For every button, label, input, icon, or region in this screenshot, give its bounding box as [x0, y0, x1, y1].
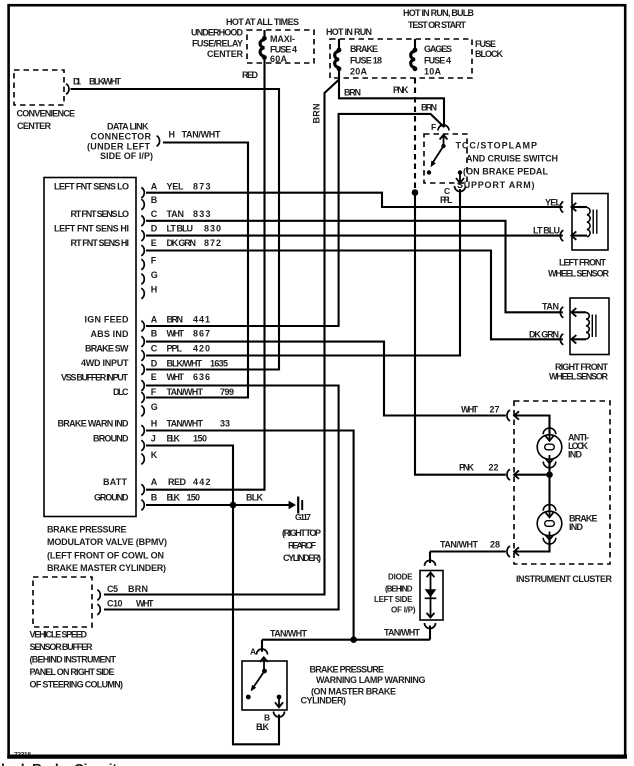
svg-text:(BEHIND INSTRUMENT: (BEHIND INSTRUMENT [30, 655, 117, 665]
svg-text:F: F [151, 387, 157, 397]
svg-text:A: A [250, 647, 256, 657]
svg-text:WARNING LAMP WARNING: WARNING LAMP WARNING [316, 675, 426, 685]
svg-text:FUSE 18: FUSE 18 [350, 56, 382, 66]
svg-text:LEFT FNT SENS LO: LEFT FNT SENS LO [54, 182, 129, 192]
svg-text:K: K [151, 450, 158, 460]
svg-text:UNDERHOOD: UNDERHOOD [191, 28, 244, 38]
svg-text:TAN/WHT: TAN/WHT [167, 387, 204, 397]
svg-text:C: C [151, 344, 158, 354]
svg-text:C5: C5 [107, 584, 118, 594]
svg-text:VSS BUFFER INPUT: VSS BUFFER INPUT [61, 373, 129, 383]
svg-text:BRAKE SW: BRAKE SW [85, 344, 129, 354]
svg-text:BLK: BLK [256, 722, 270, 732]
svg-text:TAN: TAN [167, 209, 185, 219]
svg-text:BLK: BLK [167, 434, 181, 444]
svg-text:BRAKE PRESSURE: BRAKE PRESSURE [310, 665, 385, 675]
svg-text:LT BLU: LT BLU [533, 226, 560, 236]
svg-text:(UNDER LEFT: (UNDER LEFT [87, 142, 151, 152]
svg-text:CYLINDER): CYLINDER) [283, 553, 321, 563]
svg-text:G: G [151, 402, 158, 412]
svg-text:BRN: BRN [421, 103, 437, 113]
svg-text:(LEFT FRONT OF COWL ON: (LEFT FRONT OF COWL ON [47, 551, 164, 561]
svg-text:20A: 20A [350, 67, 368, 77]
svg-text:A: A [151, 477, 158, 487]
svg-text:872: 872 [204, 238, 221, 248]
svg-text:LEFT SIDE: LEFT SIDE [374, 595, 413, 604]
svg-text:H: H [151, 419, 158, 429]
svg-text:F: F [151, 256, 157, 266]
svg-text:(ON BRAKE PEDAL: (ON BRAKE PEDAL [463, 167, 549, 177]
svg-text:G117: G117 [295, 512, 311, 522]
svg-text:G: G [151, 270, 158, 280]
svg-text:B: B [151, 492, 158, 502]
svg-text:MODULATOR VALVE (BPMV): MODULATOR VALVE (BPMV) [47, 537, 167, 547]
svg-text:MAXI-: MAXI- [270, 34, 295, 44]
svg-text:WHT: WHT [167, 372, 185, 382]
svg-text:1635: 1635 [210, 359, 228, 369]
svg-text:33: 33 [220, 419, 230, 429]
svg-text:YEL: YEL [167, 182, 185, 192]
svg-text:420: 420 [193, 344, 210, 354]
svg-text:IND: IND [569, 522, 584, 532]
svg-text:LT BLU: LT BLU [167, 224, 194, 234]
svg-text:27: 27 [490, 405, 500, 415]
svg-text:TAN/WHT: TAN/WHT [440, 540, 479, 550]
svg-text:OF STEERING COLUMN): OF STEERING COLUMN) [30, 680, 124, 690]
svg-text:PANEL ON RIGHT SIDE: PANEL ON RIGHT SIDE [30, 667, 115, 677]
svg-text:WHEEL SENSOR: WHEEL SENSOR [549, 372, 609, 382]
svg-text:LEFT FRONT: LEFT FRONT [559, 258, 607, 268]
svg-text:A: A [151, 315, 158, 325]
svg-text:FUSE: FUSE [475, 39, 496, 49]
svg-text:E: E [151, 238, 157, 248]
svg-text:WHT: WHT [167, 329, 185, 339]
svg-text:C10: C10 [107, 599, 123, 609]
svg-text:B: B [151, 195, 158, 205]
svg-text:833: 833 [193, 209, 211, 219]
svg-text:TAN/WHT: TAN/WHT [167, 419, 204, 429]
svg-text:CENTER: CENTER [207, 49, 244, 59]
svg-text:SUPPORT ARM): SUPPORT ARM) [457, 180, 535, 190]
svg-text:BRN: BRN [344, 88, 361, 98]
svg-text:D: D [151, 224, 158, 234]
svg-text:D: D [151, 359, 158, 369]
svg-text:F: F [431, 122, 436, 132]
svg-text:PPL: PPL [167, 344, 183, 354]
svg-text:D1: D1 [73, 77, 81, 87]
svg-text:BRAKE PRESSURE: BRAKE PRESSURE [47, 525, 127, 535]
svg-text:HOT AT ALL TIMES: HOT AT ALL TIMES [226, 17, 299, 27]
svg-text:150: 150 [187, 493, 201, 503]
svg-text:DK GRN: DK GRN [167, 238, 197, 248]
svg-text:B: B [151, 329, 158, 339]
svg-text:RT FNT SENS LO: RT FNT SENS LO [71, 209, 130, 219]
svg-text:A: A [151, 182, 158, 192]
svg-text:BRAKE: BRAKE [350, 44, 378, 54]
svg-text:INSTRUMENT CLUSTER: INSTRUMENT CLUSTER [516, 574, 613, 584]
svg-text:TAN/WHT: TAN/WHT [270, 629, 308, 639]
svg-text:830: 830 [204, 224, 221, 234]
svg-text:ABS IND: ABS IND [91, 329, 130, 339]
svg-text:GAGES: GAGES [424, 44, 452, 54]
svg-text:FUSE/RELAY: FUSE/RELAY [192, 39, 243, 49]
svg-text:VEHICLE SPEED: VEHICLE SPEED [30, 630, 88, 640]
svg-text:22: 22 [489, 463, 499, 473]
svg-text:BATT: BATT [103, 477, 128, 487]
svg-text:BRN: BRN [128, 584, 148, 594]
svg-text:RIGHT FRONT: RIGHT FRONT [555, 362, 609, 372]
svg-text:LEFT FNT SENS HI: LEFT FNT SENS HI [54, 224, 129, 234]
svg-text:TAN: TAN [542, 302, 559, 312]
svg-text:IND: IND [568, 450, 583, 460]
svg-text:441: 441 [193, 315, 210, 325]
svg-text:YEL: YEL [545, 198, 562, 208]
svg-text:442: 442 [193, 477, 211, 487]
svg-text:FUSE 4: FUSE 4 [424, 56, 451, 66]
svg-text:B: B [264, 713, 270, 723]
svg-text:DATA LINK: DATA LINK [107, 122, 149, 132]
svg-text:TAN/WHT: TAN/WHT [182, 130, 222, 140]
svg-text:SENSOR BUFFER: SENSOR BUFFER [30, 642, 94, 652]
svg-text:WHEEL SENSOR: WHEEL SENSOR [548, 269, 610, 279]
svg-text:150: 150 [193, 434, 207, 444]
svg-text:CONNECTOR: CONNECTOR [91, 132, 152, 142]
svg-text:DIODE: DIODE [388, 573, 413, 582]
svg-text:TEST OR START: TEST OR START [408, 20, 467, 30]
svg-text:OF I/P): OF I/P) [391, 606, 416, 615]
svg-text:BROUND: BROUND [93, 434, 129, 444]
svg-text:PNK: PNK [459, 463, 475, 473]
svg-text:28: 28 [490, 540, 500, 550]
svg-text:H: H [151, 285, 158, 295]
svg-text:GROUND: GROUND [94, 493, 129, 503]
svg-text:H: H [169, 130, 176, 140]
svg-text:873: 873 [193, 182, 211, 192]
svg-text:RED: RED [168, 477, 187, 487]
svg-text:BLK/WHT: BLK/WHT [89, 77, 122, 87]
svg-text:RT FNT SENS HI: RT FNT SENS HI [71, 238, 130, 248]
svg-text:DK GRN: DK GRN [529, 330, 559, 340]
svg-text:BRN: BRN [167, 315, 184, 325]
svg-text:IGN FEED: IGN FEED [85, 315, 130, 325]
svg-text:PNK: PNK [393, 85, 409, 95]
svg-text:BLOCK: BLOCK [475, 49, 504, 59]
svg-text:799: 799 [220, 387, 234, 397]
svg-text:CYLINDER): CYLINDER) [301, 696, 347, 706]
svg-text:PPL: PPL [440, 195, 453, 205]
svg-text:TAN/WHT: TAN/WHT [384, 628, 421, 638]
svg-text:WHT: WHT [461, 405, 479, 415]
svg-text:(BEHIND: (BEHIND [385, 585, 413, 594]
svg-text:BRAKE WARN IND: BRAKE WARN IND [58, 419, 130, 429]
svg-text:BRN: BRN [312, 104, 322, 124]
svg-text:E: E [151, 372, 157, 382]
svg-text:DLC: DLC [113, 387, 129, 397]
svg-text:J: J [151, 434, 156, 444]
svg-text:C: C [151, 209, 158, 219]
svg-text:AND CRUISE SWITCH: AND CRUISE SWITCH [466, 154, 558, 164]
svg-text:60A: 60A [270, 54, 288, 64]
svg-text:BLK: BLK [167, 493, 181, 503]
svg-text:10A: 10A [424, 67, 442, 77]
svg-text:CENTER: CENTER [17, 121, 52, 131]
svg-text:BLK/WHT: BLK/WHT [167, 359, 203, 369]
svg-text:HOT IN RUN: HOT IN RUN [326, 27, 372, 37]
svg-text:636: 636 [193, 372, 210, 382]
svg-text:WHT: WHT [136, 599, 154, 609]
svg-text:4WD INPUT: 4WD INPUT [81, 358, 129, 368]
svg-text:(RIGHT TOP: (RIGHT TOP [282, 528, 321, 538]
svg-text:REAR OF: REAR OF [288, 541, 317, 551]
svg-text:RED: RED [242, 70, 259, 80]
svg-text:lock Brake Circuit: lock Brake Circuit [1, 761, 117, 766]
svg-text:BRAKE MASTER CYLINDER): BRAKE MASTER CYLINDER) [47, 563, 166, 573]
svg-text:TCC/STOPLAMP: TCC/STOPLAMP [456, 141, 538, 151]
svg-text:BLK: BLK [246, 493, 264, 503]
svg-text:867: 867 [193, 329, 210, 339]
svg-text:HOT IN RUN, BULB: HOT IN RUN, BULB [403, 8, 475, 18]
svg-text:FUSE 4: FUSE 4 [270, 45, 297, 55]
svg-text:SIDE OF I/P): SIDE OF I/P) [100, 151, 153, 161]
svg-text:CONVENIENCE: CONVENIENCE [17, 109, 76, 119]
